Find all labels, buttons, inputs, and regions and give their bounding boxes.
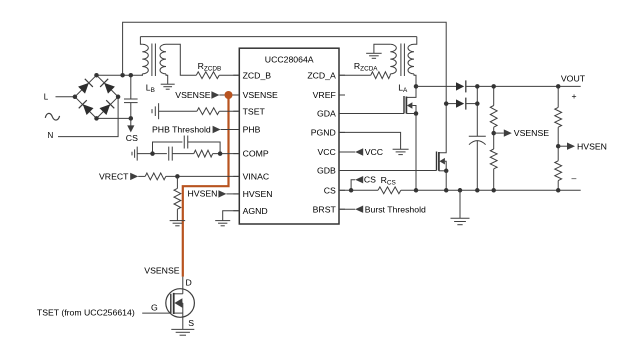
svg-text:–: – bbox=[572, 173, 577, 183]
svg-text:VRECT: VRECT bbox=[99, 172, 129, 182]
svg-text:HVSEN: HVSEN bbox=[577, 141, 607, 151]
svg-text:TSET (from UCC256614): TSET (from UCC256614) bbox=[37, 307, 135, 317]
svg-text:VCC: VCC bbox=[365, 147, 383, 157]
svg-text:VSENSE: VSENSE bbox=[175, 90, 210, 100]
svg-text:G: G bbox=[151, 303, 158, 313]
svg-text:CS: CS bbox=[364, 175, 376, 185]
svg-text:Burst Threshold: Burst Threshold bbox=[365, 204, 426, 214]
svg-text:HVSEN: HVSEN bbox=[188, 189, 218, 199]
svg-text:PHB: PHB bbox=[243, 125, 261, 135]
svg-text:VCC: VCC bbox=[317, 147, 335, 157]
svg-text:GDA: GDA bbox=[317, 109, 336, 119]
svg-text:L: L bbox=[44, 93, 49, 102]
svg-text:UCC28064A: UCC28064A bbox=[265, 55, 314, 65]
svg-text:CS: CS bbox=[126, 133, 138, 143]
svg-text:PGND: PGND bbox=[311, 128, 336, 138]
svg-text:VSENSE: VSENSE bbox=[144, 266, 179, 276]
svg-text:VSENSE: VSENSE bbox=[243, 90, 278, 100]
svg-text:VSENSE: VSENSE bbox=[514, 128, 549, 138]
svg-text:+: + bbox=[572, 91, 577, 101]
svg-text:VINAC: VINAC bbox=[243, 172, 270, 182]
svg-text:VREF: VREF bbox=[313, 90, 336, 100]
svg-text:BRST: BRST bbox=[313, 204, 337, 214]
svg-text:PHB Threshold: PHB Threshold bbox=[152, 125, 211, 135]
svg-text:ZCD_B: ZCD_B bbox=[243, 70, 272, 80]
svg-text:N: N bbox=[48, 131, 54, 140]
svg-text:HVSEN: HVSEN bbox=[243, 189, 273, 199]
svg-text:S: S bbox=[188, 318, 194, 328]
svg-text:ZCD_A: ZCD_A bbox=[307, 70, 336, 80]
svg-text:D: D bbox=[186, 277, 192, 287]
svg-text:VOUT: VOUT bbox=[561, 73, 586, 83]
svg-text:AGND: AGND bbox=[243, 206, 268, 216]
svg-text:CS: CS bbox=[324, 185, 336, 195]
svg-text:COMP: COMP bbox=[243, 149, 269, 159]
svg-text:TSET: TSET bbox=[243, 106, 266, 116]
svg-text:GDB: GDB bbox=[317, 166, 336, 176]
